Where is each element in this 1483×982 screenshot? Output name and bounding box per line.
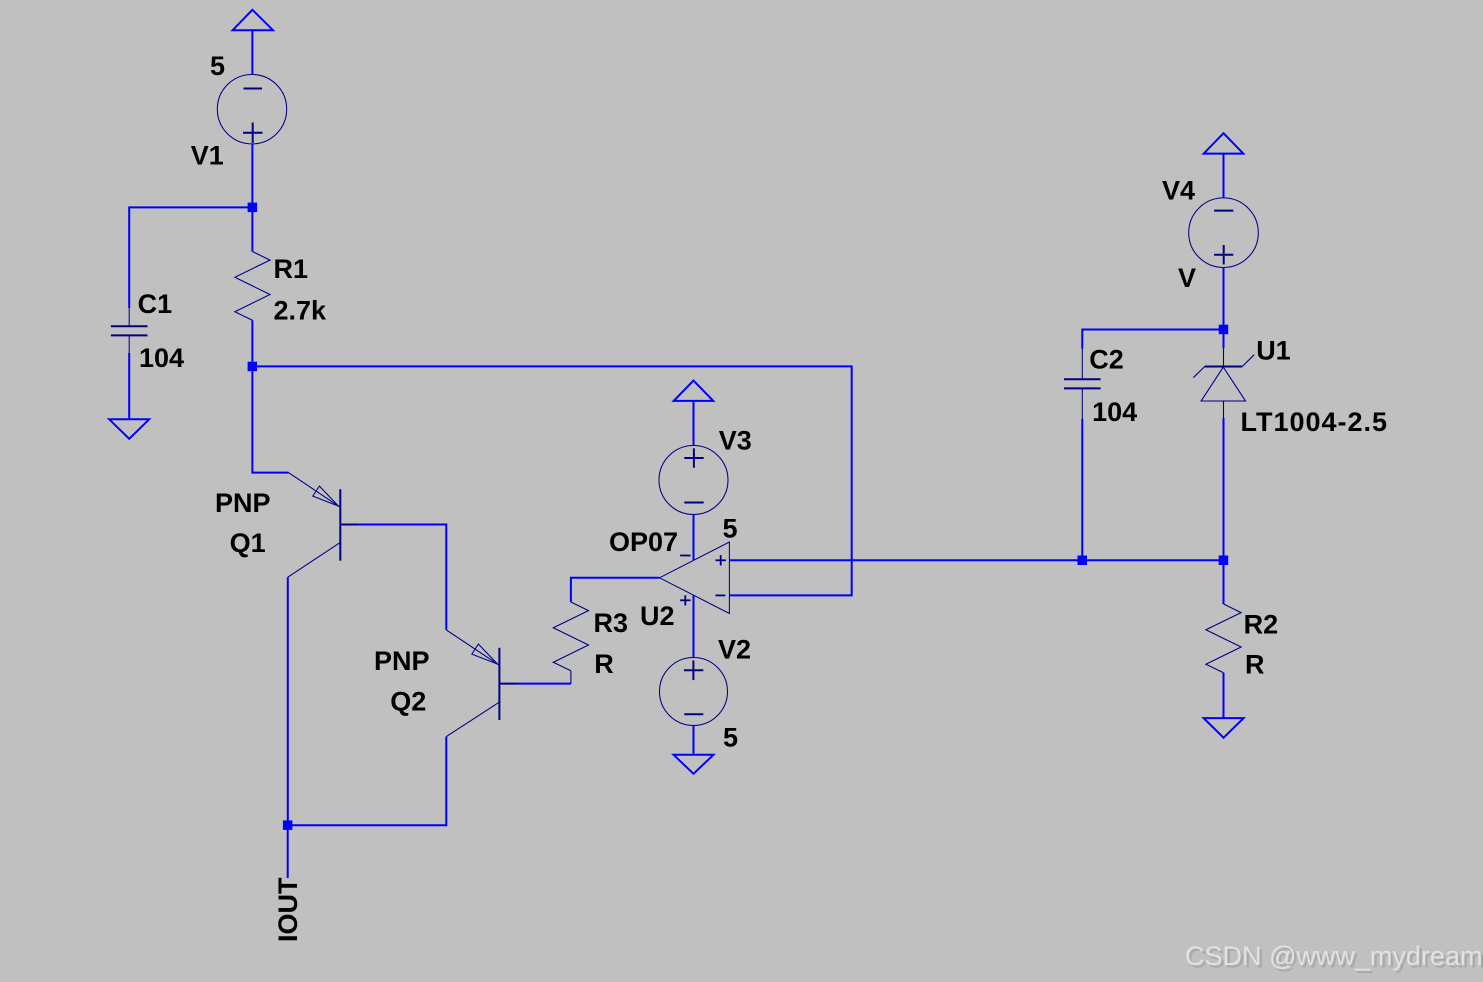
resistor R2: [1206, 604, 1241, 673]
wire A2 down to Q1 emitter: [252, 369, 288, 473]
voltage source V4: [1189, 198, 1259, 268]
wire opamp V+ pin to V2: [693, 595, 695, 657]
transistor Q1 (PNP): [288, 473, 358, 578]
wire B1 to U1: [1223, 332, 1225, 348]
svg-text:R3: R3: [594, 608, 629, 638]
svg-text:R1: R1: [274, 254, 309, 284]
svg-text:PNP: PNP: [215, 488, 271, 518]
voltage source V3: [659, 446, 728, 515]
capacitor C1: [111, 308, 148, 353]
resistor R3: [553, 602, 588, 684]
ground (R2): [1204, 718, 1244, 738]
wire U1 to node B3: [1223, 418, 1225, 557]
wire V4 to node B1: [1223, 268, 1225, 327]
wire Q1 collector down: [287, 577, 289, 821]
wire V1 to node A1: [251, 144, 253, 204]
svg-text:C2: C2: [1089, 344, 1124, 374]
node B2 junction: [1078, 556, 1088, 566]
svg-text:104: 104: [139, 343, 184, 373]
wire R1 to node A2: [251, 320, 253, 363]
node B1 junction: [1219, 325, 1229, 335]
node B3 junction: [1219, 556, 1229, 566]
ground (V2): [674, 755, 714, 774]
svg-text:R: R: [594, 649, 614, 679]
resistor R1: [235, 252, 270, 321]
voltage source V1: [217, 75, 286, 144]
wire B1 to C2: [1082, 330, 1220, 349]
power flag V3 rail: [674, 381, 714, 446]
capacitor C2: [1064, 349, 1101, 419]
svg-text:5: 5: [723, 514, 738, 544]
svg-text:U2: U2: [640, 601, 675, 631]
svg-text:R: R: [1245, 649, 1265, 679]
svg-text:2.7k: 2.7k: [274, 296, 328, 326]
power flag V1 rail: [233, 10, 273, 75]
node A2 junction: [248, 362, 258, 372]
wire opamp output to R3: [571, 578, 659, 602]
wire node A3 down to IOUT: [287, 828, 289, 878]
svg-text:LT1004-2.5: LT1004-2.5: [1241, 407, 1389, 437]
wire Q2 base to R3: [517, 683, 571, 685]
voltage source V2: [660, 658, 728, 726]
svg-text:CSDN @www_mydream: CSDN @www_mydream: [1185, 941, 1482, 971]
wire A1 to C1: [129, 207, 249, 308]
svg-text:V1: V1: [191, 141, 224, 171]
svg-text:V4: V4: [1162, 176, 1195, 206]
svg-text:IOUT: IOUT: [273, 877, 303, 942]
node A1 junction: [248, 203, 258, 213]
svg-text:C1: C1: [138, 289, 173, 319]
svg-text:V: V: [1178, 263, 1196, 293]
svg-text:Q1: Q1: [230, 528, 266, 558]
wire Q1 base to Q2 emitter: [358, 525, 447, 630]
power flag V4 rail: [1204, 133, 1244, 198]
svg-text:PNP: PNP: [374, 646, 430, 676]
node A3 junction: [283, 820, 293, 830]
svg-text:V2: V2: [718, 635, 751, 665]
wire B3 to R2: [1223, 563, 1225, 604]
wire C2 to node B2: [1081, 419, 1083, 557]
svg-text:R2: R2: [1244, 610, 1279, 640]
svg-text:5: 5: [210, 51, 225, 81]
svg-text:U1: U1: [1256, 335, 1291, 365]
wire opamp V- pin to V3: [693, 514, 695, 560]
wire Q2 collector to node A3: [292, 737, 446, 826]
wire opamp +in to right node: [729, 559, 1223, 561]
wire V2 to ground: [693, 726, 695, 755]
wire A2 to feedback (right): [255, 366, 852, 595]
zener diode U1 (LT1004-2.5): [1193, 348, 1254, 418]
svg-text:V3: V3: [719, 426, 752, 456]
ground (C1): [109, 419, 149, 439]
svg-text:OP07: OP07: [609, 527, 678, 557]
wire A1 to R1: [251, 210, 253, 252]
op-amp U2 (OP07, mirrored): [660, 542, 730, 614]
svg-text:104: 104: [1092, 397, 1137, 427]
svg-text:Q2: Q2: [390, 687, 426, 717]
wire R2 to ground: [1223, 673, 1225, 718]
wire C1 to ground: [128, 353, 130, 419]
transistor Q2 (PNP): [446, 630, 517, 737]
svg-text:5: 5: [723, 723, 738, 753]
